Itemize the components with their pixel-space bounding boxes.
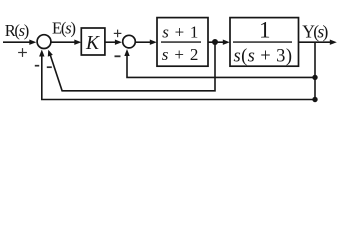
svg-text:s + 1: s + 1: [162, 22, 198, 41]
wire: output drop line at x=315: [314, 42, 316, 99]
block G1 (s+1)/(s+2): [157, 18, 208, 67]
wire: K to summing junction S2: [105, 40, 122, 45]
wire: outer feedback from node C to S1 (bottom and riser): [39, 50, 315, 100]
summing junction S1: [37, 35, 51, 49]
plus sign at S2 input: [114, 30, 122, 38]
block K: [81, 28, 105, 55]
block G2 1/(s(s+3)): [230, 18, 299, 67]
summing junction S2: [123, 35, 136, 48]
wire: feedback from node B to S2 (horizontal and riser): [124, 49, 315, 77]
minus sign at S1 diagonal feedback input: [47, 66, 52, 68]
svg-text:R(s): R(s): [5, 21, 30, 40]
svg-text:s(s + 3): s(s + 3): [234, 46, 293, 66]
svg-text:Y(s): Y(s): [302, 22, 328, 42]
wire: S1 to block K: [52, 40, 82, 45]
svg-text:s + 2: s + 2: [162, 45, 199, 64]
wire: S2 to block G1: [136, 40, 157, 45]
wire: R(s) input into summing junction S1: [3, 40, 36, 45]
svg-text:K: K: [85, 33, 100, 54]
node A takeoff dot: [212, 39, 218, 45]
node C takeoff dot on drop (lower): [312, 97, 317, 102]
wire: G1 to node A and on to block G2: [208, 40, 230, 45]
minus sign at S2 feedback input: [115, 55, 121, 57]
minus sign at S1 vertical feedback input: [35, 65, 39, 67]
svg-text:E(s): E(s): [52, 18, 76, 37]
wire: G2 output to Y(s) arrow: [299, 40, 337, 45]
node B takeoff dot on drop (upper): [312, 75, 317, 80]
svg-text:1: 1: [259, 17, 271, 42]
plus sign at S1 input: [18, 48, 27, 57]
wire: feedback from node A down, left, diagonally into S1: [48, 42, 215, 91]
